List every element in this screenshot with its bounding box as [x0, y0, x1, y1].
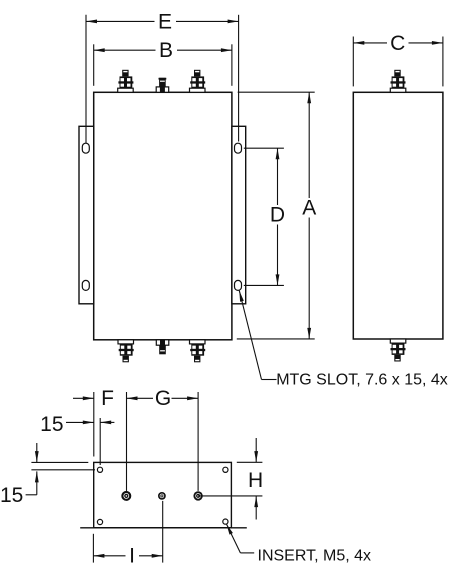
svg-text:15: 15 — [0, 484, 23, 507]
bottom view plate — [94, 462, 232, 527]
connector J3 top-right (front view) — [190, 70, 206, 92]
connector J6 bottom-right (front view) — [190, 340, 206, 363]
dimension C — [353, 32, 443, 87]
mounting slot bottom-right — [235, 280, 242, 290]
connector face left (bottom view) — [121, 491, 131, 501]
dimension I — [93, 501, 162, 568]
dimension D — [244, 148, 285, 285]
dimension H — [198, 438, 263, 520]
leader MTG SLOT — [239, 291, 448, 389]
svg-text:MTG SLOT, 7.6 x 15, 4x: MTG SLOT, 7.6 x 15, 4x — [276, 372, 448, 389]
connector J1 top-left (front view) — [118, 70, 134, 92]
connector side bottom — [390, 339, 406, 362]
left mounting flange — [79, 126, 94, 303]
svg-text:H: H — [248, 469, 263, 492]
dimension G — [127, 387, 199, 491]
insert hole bottom-left — [97, 519, 102, 524]
insert hole bottom-right — [223, 519, 228, 524]
svg-text:F: F — [101, 387, 114, 410]
plate bottom extended edge line — [80, 527, 247, 529]
svg-text:E: E — [158, 10, 172, 33]
svg-text:15: 15 — [40, 413, 63, 436]
front view enclosure body — [94, 92, 232, 339]
svg-text:A: A — [302, 197, 316, 220]
connector face right (bottom view) — [193, 491, 202, 500]
svg-text:C: C — [390, 32, 405, 55]
dimension B — [94, 39, 232, 86]
mounting slot top-left — [82, 143, 89, 153]
connector J4 bottom-left (front view) — [118, 340, 134, 363]
mounting slot bottom-left — [82, 280, 89, 290]
dimension 15 horizontal — [40, 413, 114, 465]
dimension F — [73, 387, 127, 491]
svg-text:B: B — [159, 39, 173, 62]
mounting slot top-right — [235, 143, 242, 153]
svg-text:INSERT, M5, 4x: INSERT, M5, 4x — [258, 547, 372, 564]
side view enclosure body — [353, 92, 443, 339]
insert hole top-right — [223, 467, 228, 472]
connector face middle (bottom view) — [158, 492, 166, 500]
dimension E — [86, 10, 239, 143]
svg-text:G: G — [155, 387, 171, 410]
connector side top — [390, 70, 406, 92]
svg-text:I: I — [129, 545, 135, 568]
dimension 15 vertical — [0, 443, 95, 507]
dimension A — [237, 92, 316, 339]
svg-text:D: D — [270, 204, 285, 227]
leader INSERT — [226, 524, 371, 564]
right mounting flange — [232, 126, 246, 303]
connector J5 bottom-middle (front view) — [156, 340, 169, 355]
connector J2 top-middle (front view) — [156, 78, 169, 93]
insert hole top-left — [97, 467, 102, 472]
